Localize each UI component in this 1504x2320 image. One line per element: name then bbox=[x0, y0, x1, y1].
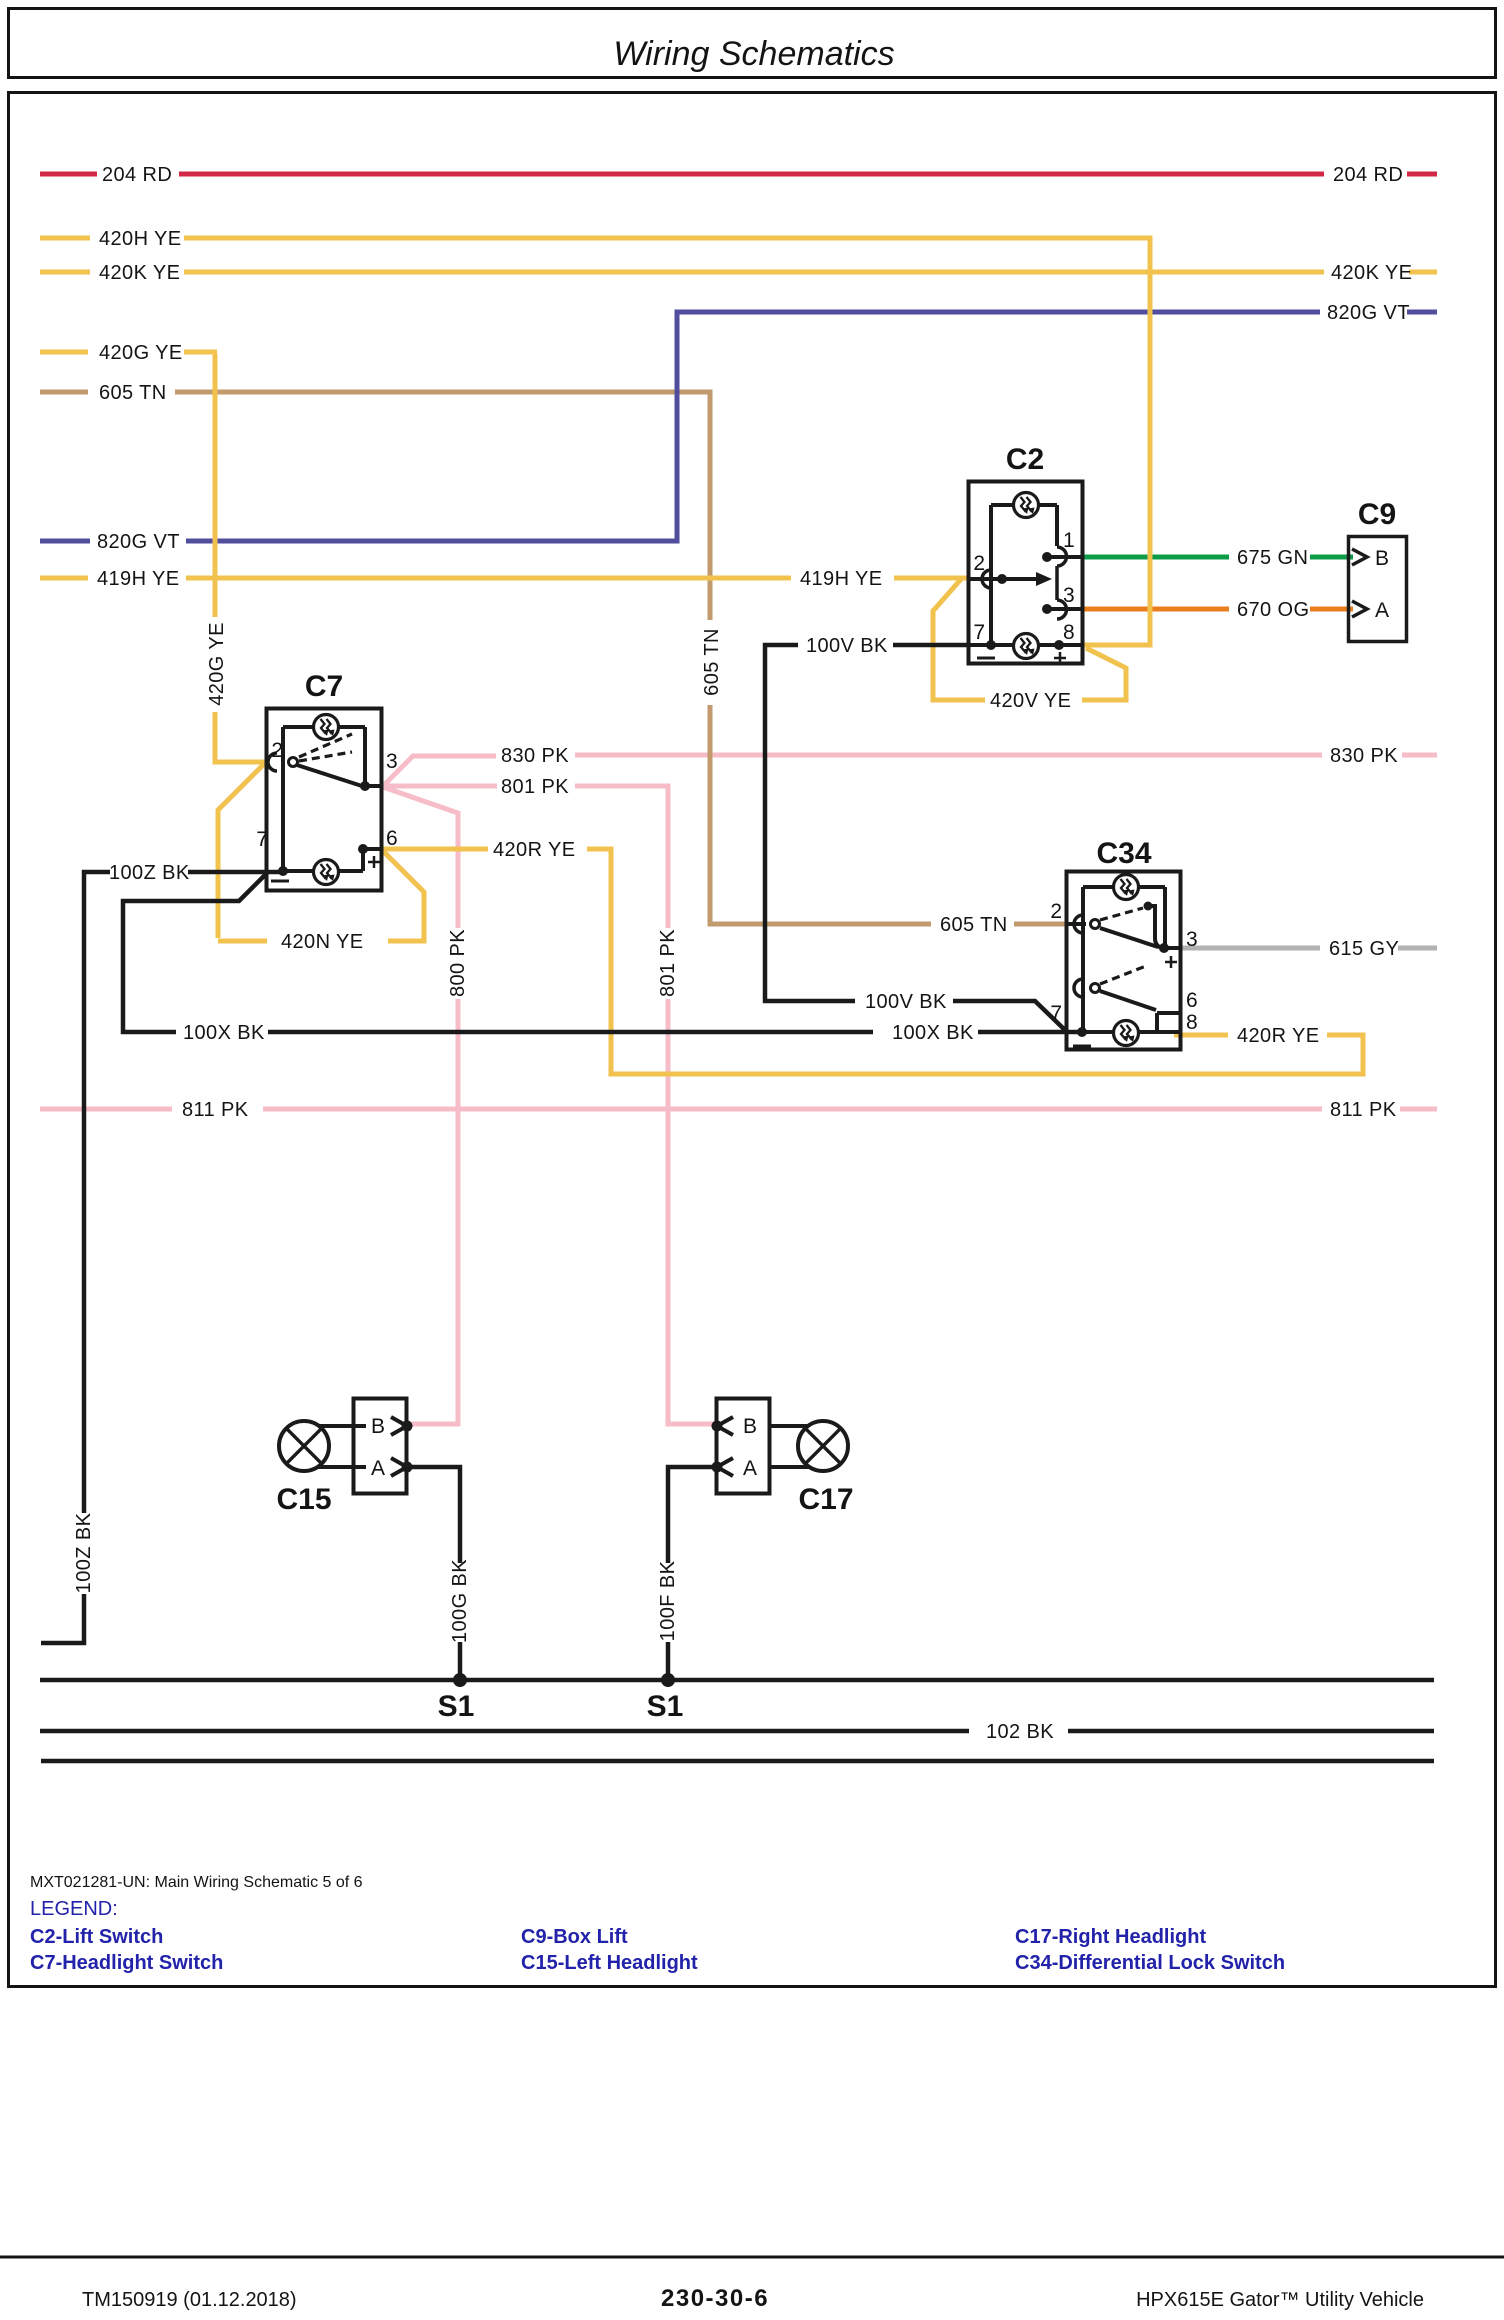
svg-text:A: A bbox=[1375, 599, 1389, 622]
svg-text:A: A bbox=[371, 1457, 385, 1480]
label 100X BK left bbox=[183, 1022, 265, 1044]
connector C34 (differential lock switch) label bbox=[1096, 837, 1151, 870]
label 801 PK horizontal bbox=[501, 776, 569, 798]
wire 100Z BK (C7 pin7 down left) bbox=[41, 872, 283, 1643]
connector C7 (headlight switch) label bbox=[305, 670, 343, 703]
label 100V BK lower bbox=[865, 991, 947, 1013]
svg-text:820G VT: 820G VT bbox=[1327, 302, 1410, 324]
label 420V YE bbox=[990, 690, 1071, 712]
svg-text:C15: C15 bbox=[276, 1483, 331, 1516]
C15 pin A arrow bbox=[391, 1458, 407, 1476]
label 420R YE left bbox=[493, 839, 576, 861]
svg-text:830 PK: 830 PK bbox=[1330, 745, 1398, 767]
C9 pin A arrow bbox=[1352, 601, 1367, 617]
legend C9 bbox=[521, 1926, 628, 1948]
svg-text:Wiring Schematics: Wiring Schematics bbox=[613, 35, 894, 73]
svg-text:100V BK: 100V BK bbox=[806, 635, 888, 657]
label 419H YE mid bbox=[800, 568, 883, 590]
C34 pin number 8 bbox=[1186, 1011, 1198, 1034]
C15 pin B label bbox=[371, 1415, 385, 1438]
C9 pin B arrow bbox=[1352, 549, 1367, 565]
wire 102 BK bus line 2 bbox=[40, 1729, 1434, 1734]
C34 lower dashed throw bbox=[1100, 966, 1146, 984]
svg-text:C7: C7 bbox=[305, 670, 343, 703]
wire 811 PK bbox=[40, 1107, 1437, 1112]
wire 800 PK (C7 pin3 down to C15 pin B) bbox=[383, 787, 458, 1424]
C7 lamp top bbox=[314, 715, 339, 740]
connector C2 (lift switch) label bbox=[1006, 443, 1044, 476]
C7 wiper to pin3 bbox=[297, 765, 365, 787]
svg-text:830 PK: 830 PK bbox=[501, 745, 569, 767]
svg-text:7: 7 bbox=[256, 828, 268, 851]
footer rule bbox=[0, 2256, 1504, 2259]
wire 670 OG (C2 pin3 to C9 pin A) bbox=[1083, 607, 1353, 612]
caption MXT021281-UN bbox=[30, 1874, 363, 1891]
label 420G YE rotated bbox=[206, 622, 228, 706]
C2 pin number 7 bbox=[973, 621, 985, 644]
svg-text:420K YE: 420K YE bbox=[99, 262, 180, 284]
svg-text:C34-Differential Lock Switch: C34-Differential Lock Switch bbox=[1015, 1952, 1285, 1974]
svg-text:100X BK: 100X BK bbox=[892, 1022, 974, 1044]
label 102 BK bbox=[986, 1721, 1054, 1743]
C7 inner wiring bbox=[283, 727, 382, 871]
svg-text:605 TN: 605 TN bbox=[99, 382, 167, 404]
legend C15 bbox=[521, 1952, 698, 1974]
C9 pin A label bbox=[1375, 599, 1389, 622]
label 605 TN rotated bbox=[701, 628, 723, 696]
svg-text:7: 7 bbox=[1050, 1002, 1062, 1025]
svg-text:A: A bbox=[743, 1457, 757, 1480]
connector C17 label bbox=[798, 1483, 853, 1516]
label 204 RD left bbox=[102, 164, 172, 186]
C15 pin wires bbox=[318, 1426, 366, 1467]
C34 pin2 contact arc bbox=[1074, 915, 1083, 933]
svg-text:LEGEND:: LEGEND: bbox=[30, 1898, 118, 1920]
footer manual number bbox=[82, 2289, 297, 2311]
C2 wiper arrowhead bbox=[1036, 572, 1052, 586]
label 100F BK rotated bbox=[657, 1560, 679, 1641]
svg-text:B: B bbox=[743, 1415, 757, 1438]
C2 inner wiring bbox=[969, 505, 1083, 645]
label 100X BK right bbox=[892, 1022, 974, 1044]
C7 lamp bottom bbox=[314, 860, 339, 885]
C34 dashed-end junction dot bbox=[1144, 902, 1163, 949]
svg-text:C17-Right Headlight: C17-Right Headlight bbox=[1015, 1926, 1206, 1948]
svg-text:605 TN: 605 TN bbox=[701, 628, 723, 696]
C2 lamp bottom bbox=[1014, 634, 1039, 659]
label 204 RD right bbox=[1333, 164, 1403, 186]
connector C34 box bbox=[1067, 872, 1181, 1050]
wire 615 GY (C34 pin3 to right edge) bbox=[1181, 946, 1437, 951]
svg-text:B: B bbox=[371, 1415, 385, 1438]
C7 minus sign bbox=[271, 880, 289, 883]
C7 pin number 7 bbox=[256, 828, 268, 851]
legend C7 bbox=[30, 1952, 223, 1974]
label 830 PK left bbox=[501, 745, 569, 767]
label 420H YE bbox=[99, 228, 182, 250]
C2 lamp top bbox=[1014, 493, 1039, 518]
label 811 PK left bbox=[182, 1099, 249, 1121]
svg-text:C2: C2 bbox=[1006, 443, 1044, 476]
svg-text:230-30-6: 230-30-6 bbox=[661, 2285, 769, 2312]
svg-text:C9-Box Lift: C9-Box Lift bbox=[521, 1926, 628, 1948]
wire 100X BK (C7 pin7 to C34 pin7) bbox=[123, 874, 1082, 1032]
svg-text:3: 3 bbox=[386, 750, 398, 773]
svg-text:MXT021281-UN: Main Wiring Sche: MXT021281-UN: Main Wiring Schematic 5 of… bbox=[30, 1874, 363, 1891]
C2 pin number 1 bbox=[1063, 529, 1075, 552]
lamp C15 (left headlight) bulb bbox=[279, 1421, 329, 1471]
connector C2 box bbox=[969, 482, 1083, 664]
C34 lamp bottom bbox=[1114, 1021, 1139, 1046]
C34 pin7 junction dot bbox=[1077, 1027, 1087, 1037]
label 615 GY bbox=[1329, 938, 1399, 960]
svg-text:TM150919 (01.12.2018): TM150919 (01.12.2018) bbox=[82, 2289, 297, 2311]
svg-text:670 OG: 670 OG bbox=[1237, 599, 1309, 621]
svg-text:C2-Lift Switch: C2-Lift Switch bbox=[30, 1926, 163, 1948]
C34 minus sign bbox=[1073, 1045, 1091, 1048]
C7 pin2 contact arc bbox=[268, 753, 277, 771]
splice S1 right junction dot bbox=[661, 1673, 675, 1687]
label 100Z BK horizontal bbox=[109, 862, 190, 884]
C15 pin B dot bbox=[402, 1421, 413, 1432]
C15 pin A label bbox=[371, 1457, 385, 1480]
svg-text:6: 6 bbox=[1186, 989, 1198, 1012]
svg-text:204 RD: 204 RD bbox=[1333, 164, 1403, 186]
C34 inner wiring bbox=[1067, 887, 1181, 1032]
svg-text:8: 8 bbox=[1063, 621, 1075, 644]
legend C17 bbox=[1015, 1926, 1206, 1948]
svg-text:605 TN: 605 TN bbox=[940, 914, 1008, 936]
C34 pin number 7 bbox=[1050, 1002, 1062, 1025]
C34 pin3 junction dot bbox=[1159, 943, 1169, 953]
footer page number bbox=[661, 2285, 769, 2312]
C17 pin B arrow bbox=[717, 1417, 733, 1435]
label 820G VT left bbox=[97, 531, 180, 553]
svg-text:420H YE: 420H YE bbox=[99, 228, 182, 250]
connector C17 box bbox=[717, 1399, 770, 1494]
C34 upper switch pivot bbox=[1091, 920, 1100, 929]
svg-text:100Z BK: 100Z BK bbox=[109, 862, 190, 884]
C34 lower wiper to pin6 bbox=[1100, 991, 1156, 1010]
wire ground bus line 3 bbox=[41, 1759, 1434, 1764]
C15 pin B arrow bbox=[391, 1417, 407, 1435]
footer vehicle name bbox=[1136, 2289, 1424, 2311]
C15 pin A dot bbox=[402, 1462, 413, 1473]
C34 lower switch pivot bbox=[1091, 984, 1100, 993]
wire 801 PK (C7 pin3 down to C17 pin B) bbox=[382, 786, 717, 1424]
svg-text:2: 2 bbox=[973, 552, 985, 575]
svg-text:811 PK: 811 PK bbox=[1330, 1099, 1397, 1121]
svg-text:420G YE: 420G YE bbox=[99, 342, 183, 364]
svg-text:419H YE: 419H YE bbox=[800, 568, 883, 590]
C34 upper wiper to pin3 bbox=[1100, 928, 1158, 947]
C7 pin number 3 bbox=[386, 750, 398, 773]
lamp C17 (right headlight) bulb bbox=[798, 1421, 848, 1471]
wire 420K YE bbox=[40, 270, 1437, 275]
wire 820G VT bbox=[40, 312, 1437, 541]
page frame: title box bbox=[9, 9, 1496, 78]
svg-text:7: 7 bbox=[973, 621, 985, 644]
svg-text:419H YE: 419H YE bbox=[97, 568, 180, 590]
svg-text:420R YE: 420R YE bbox=[493, 839, 576, 861]
svg-text:3: 3 bbox=[1063, 584, 1075, 607]
C7 pin number 6 bbox=[386, 827, 398, 850]
C2 plus sign bbox=[1054, 652, 1066, 664]
svg-text:100G BK: 100G BK bbox=[449, 1559, 471, 1643]
legend C34 bbox=[1015, 1952, 1285, 1974]
C7 pin number 2 bbox=[271, 739, 283, 762]
wire 100F BK (C17 pin A to S1) bbox=[668, 1467, 717, 1680]
svg-text:1: 1 bbox=[1063, 529, 1075, 552]
svg-text:C34: C34 bbox=[1096, 837, 1151, 870]
svg-text:100Z BK: 100Z BK bbox=[73, 1512, 95, 1593]
label 420K YE left bbox=[99, 262, 180, 284]
connector C15 label bbox=[276, 1483, 331, 1516]
label 605 TN at C34 bbox=[940, 914, 1008, 936]
C34 pin number 3 bbox=[1186, 928, 1198, 951]
svg-text:C17: C17 bbox=[798, 1483, 853, 1516]
label 420K YE right bbox=[1331, 262, 1412, 284]
svg-text:100X BK: 100X BK bbox=[183, 1022, 265, 1044]
label 420R YE right bbox=[1237, 1025, 1320, 1047]
connector C9 (box lift) label bbox=[1358, 498, 1396, 531]
label 801 PK rotated bbox=[657, 929, 679, 997]
C2 pin1 contact arc bbox=[1057, 547, 1067, 619]
label 420N YE bbox=[281, 931, 364, 953]
C34 lower contact arc bbox=[1074, 979, 1083, 997]
C17 pin A arrow bbox=[717, 1458, 733, 1476]
wire 420G YE (down to C7 pin2) bbox=[40, 352, 266, 762]
wire 830 PK (C7 pin3 to right edge) bbox=[382, 755, 1437, 787]
C34 lamp top bbox=[1114, 875, 1139, 900]
svg-text:C15-Left Headlight: C15-Left Headlight bbox=[521, 1952, 698, 1974]
wire 605 TN bbox=[40, 392, 1067, 924]
C2 pin8 junction dot bbox=[1054, 640, 1064, 650]
C2 pin2 contact arc bbox=[982, 570, 991, 588]
wire ground bus line 1 bbox=[40, 1678, 1434, 1683]
C17 pin wires bbox=[770, 1426, 809, 1467]
title: Wiring Schematics bbox=[613, 35, 894, 73]
connector C15 box bbox=[354, 1399, 407, 1494]
wire 420H YE (to C2 pin8) bbox=[40, 238, 1150, 645]
label 419H YE left bbox=[97, 568, 180, 590]
wire 100V BK (C2 pin7 to C34 pin7) bbox=[765, 645, 1066, 1031]
svg-text:675 GN: 675 GN bbox=[1237, 547, 1308, 569]
svg-text:C9: C9 bbox=[1358, 498, 1396, 531]
C7 plus sign bbox=[368, 856, 380, 868]
svg-text:S1: S1 bbox=[647, 1690, 684, 1723]
svg-text:3: 3 bbox=[1186, 928, 1198, 951]
C17 pin B dot bbox=[712, 1421, 723, 1432]
connector C9 box bbox=[1349, 537, 1407, 642]
label 800 PK rotated bbox=[447, 929, 469, 997]
C34 pin number 2 bbox=[1050, 900, 1062, 923]
svg-text:204 RD: 204 RD bbox=[102, 164, 172, 186]
C34 pin number 6 bbox=[1186, 989, 1198, 1012]
C7 pin6 junction dot bbox=[358, 844, 368, 854]
svg-text:100V BK: 100V BK bbox=[865, 991, 947, 1013]
splice S1 left junction dot bbox=[453, 1673, 467, 1687]
C2 pin7 junction dot bbox=[986, 640, 996, 650]
wire 420V YE loop (C2 pin2 branch to pin8) bbox=[933, 578, 1126, 700]
wire 675 GN (C2 pin1 to C9 pin B) bbox=[1083, 555, 1353, 560]
svg-text:801 PK: 801 PK bbox=[657, 929, 679, 997]
label 811 PK right bbox=[1330, 1099, 1397, 1121]
C17 pin B label bbox=[743, 1415, 757, 1438]
C34 plus sign bbox=[1165, 956, 1177, 968]
wire 419H YE (to C2 pin2) bbox=[40, 576, 969, 581]
C7 pin3 junction dot bbox=[360, 781, 370, 791]
label 820G VT right bbox=[1327, 302, 1410, 324]
C17 pin A label bbox=[743, 1457, 757, 1480]
splice S1 left label bbox=[438, 1690, 475, 1723]
wire 100G BK (C15 pin A to S1) bbox=[407, 1467, 460, 1680]
label 605 TN left bbox=[99, 382, 167, 404]
wire 420N YE loop (C7 pin2 to pin6) bbox=[218, 762, 424, 941]
C9 pin B label bbox=[1375, 547, 1389, 570]
C2 pin number 8 bbox=[1063, 621, 1075, 644]
svg-text:102 BK: 102 BK bbox=[986, 1721, 1054, 1743]
label 420G YE left bbox=[99, 342, 183, 364]
svg-text:6: 6 bbox=[386, 827, 398, 850]
C34 upper dashed throw bbox=[1100, 908, 1143, 920]
svg-text:800 PK: 800 PK bbox=[447, 929, 469, 997]
label 675 GN bbox=[1237, 547, 1308, 569]
C17 pin A dot bbox=[712, 1462, 723, 1473]
C7 dashed throw positions bbox=[299, 734, 352, 761]
svg-text:420K YE: 420K YE bbox=[1331, 262, 1412, 284]
svg-text:420N YE: 420N YE bbox=[281, 931, 364, 953]
wire 420R YE (C7 pin6 to C34 pin8) bbox=[382, 849, 1363, 1074]
svg-text:2: 2 bbox=[1050, 900, 1062, 923]
splice S1 right label bbox=[647, 1690, 684, 1723]
C7 pin7 junction dot bbox=[278, 866, 288, 876]
svg-text:811 PK: 811 PK bbox=[182, 1099, 249, 1121]
connector C7 box bbox=[267, 709, 382, 891]
legend heading bbox=[30, 1898, 118, 1920]
svg-text:420G YE: 420G YE bbox=[206, 622, 228, 706]
svg-text:C7-Headlight Switch: C7-Headlight Switch bbox=[30, 1952, 223, 1974]
label 670 OG bbox=[1237, 599, 1309, 621]
svg-text:100F BK: 100F BK bbox=[657, 1560, 679, 1641]
svg-text:820G VT: 820G VT bbox=[97, 531, 180, 553]
label 100G BK rotated bbox=[449, 1559, 471, 1643]
label 100V BK upper bbox=[806, 635, 888, 657]
legend C2 bbox=[30, 1926, 163, 1948]
svg-text:S1: S1 bbox=[438, 1690, 475, 1723]
label 830 PK right bbox=[1330, 745, 1398, 767]
C2 pin2 junction dot bbox=[997, 574, 1007, 584]
svg-text:8: 8 bbox=[1186, 1011, 1198, 1034]
svg-text:2: 2 bbox=[271, 739, 283, 762]
svg-text:B: B bbox=[1375, 547, 1389, 570]
C2 pin number 2 bbox=[973, 552, 985, 575]
svg-text:801 PK: 801 PK bbox=[501, 776, 569, 798]
C2 pin1 junction dot bbox=[1042, 552, 1083, 562]
svg-text:420V YE: 420V YE bbox=[990, 690, 1071, 712]
C7 switch pivot bbox=[289, 758, 298, 767]
C2 pin3 junction dot bbox=[1042, 604, 1083, 614]
C2 minus sign bbox=[977, 657, 995, 660]
wire 204 RD bbox=[40, 172, 1437, 177]
svg-text:HPX615E Gator™ Utility Vehicle: HPX615E Gator™ Utility Vehicle bbox=[1136, 2289, 1424, 2311]
C2 pin number 3 bbox=[1063, 584, 1075, 607]
svg-text:615 GY: 615 GY bbox=[1329, 938, 1399, 960]
label 100Z BK rotated bbox=[73, 1512, 95, 1593]
svg-text:420R YE: 420R YE bbox=[1237, 1025, 1320, 1047]
